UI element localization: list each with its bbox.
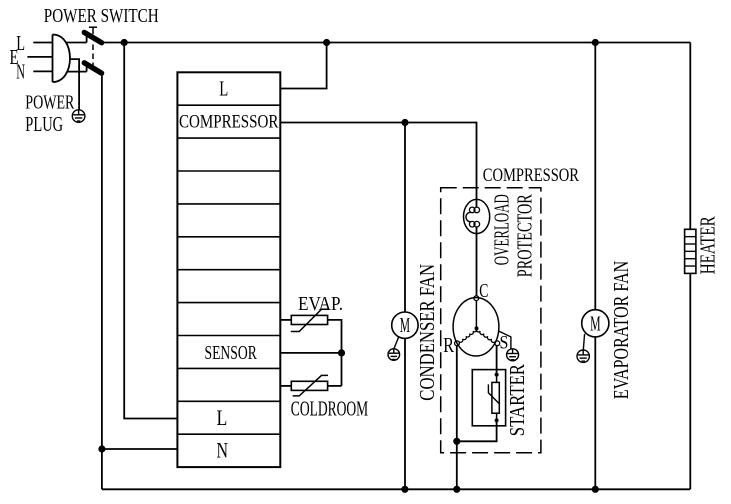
svg-text:POWER SWITCH: POWER SWITCH (44, 5, 159, 27)
node starter terminal top (495, 373, 499, 377)
wire overload to compressor C (476, 227, 478, 296)
switch S1 terminal stub bottom (86, 67, 88, 72)
thermistor EVAP sensor (291, 315, 327, 324)
wire evap sensor to bus (328, 320, 342, 386)
wire N row link (102, 448, 177, 450)
heater element (685, 229, 696, 273)
motor M condenser fan (392, 312, 418, 338)
svg-text:R: R (443, 333, 454, 357)
ground plug earth (72, 110, 85, 123)
svg-text:N: N (16, 59, 25, 83)
motor M evaporator fan (582, 310, 609, 337)
wire row10 to coldroom sensor (280, 385, 291, 387)
wire starter internal bottom (496, 413, 498, 420)
svg-text:C: C (479, 280, 488, 302)
node junction condenser fan tap (401, 119, 408, 126)
svg-text:POWER: POWER (25, 92, 75, 114)
wire evap fan drop (594, 43, 596, 311)
node junction starter return (453, 438, 460, 445)
svg-text:COMPRESSOR: COMPRESSOR (483, 165, 579, 186)
node junction top-mid (to L terminal) (323, 39, 330, 46)
node junction evap fan bottom (592, 486, 599, 493)
node junction condenser fan bottom (401, 486, 408, 493)
svg-text:EVAP.: EVAP. (298, 293, 343, 315)
wire right bus down to heater (689, 43, 691, 230)
switch S1 blade top (84, 32, 101, 42)
switch S1 terminal stub top (86, 37, 88, 43)
wire R to bottom bus (456, 346, 458, 490)
svg-text:N: N (217, 437, 229, 462)
svg-text:COMPRESSOR: COMPRESSOR (179, 111, 279, 132)
wire starter internal top (496, 375, 498, 383)
overload protector OL (464, 199, 490, 233)
switch S1 link (dashed) (92, 45, 94, 66)
switch S1 blade bottom (84, 63, 101, 73)
wire condenser fan to bottom bus (404, 338, 406, 489)
node junction sensor bus (338, 349, 345, 356)
starter box (472, 370, 505, 426)
wire condenser fan drop (404, 123, 406, 313)
ground condenser fan earth (394, 337, 399, 349)
node junction R bottom bus (453, 486, 460, 493)
wire evap fan to bottom bus (594, 337, 596, 490)
wire L row1 to top bus (280, 43, 326, 89)
thermistor PTC starter (492, 382, 499, 413)
wire E input (27, 56, 52, 58)
wire S down to starter (496, 346, 498, 375)
node junction N row (98, 445, 105, 452)
svg-text:OVERLOAD: OVERLOAD (489, 194, 513, 265)
wire COMPRESSOR row2 output (280, 123, 476, 208)
wire top live bus (102, 42, 691, 44)
wire coldroom sensor to bus (328, 385, 342, 387)
wire SENSOR row9 to bus (280, 352, 341, 354)
wire bottom neutral bus (102, 488, 690, 490)
svg-text:SENSOR: SENSOR (205, 342, 258, 364)
power plug P1 (53, 35, 70, 83)
thermostat terminal box (177, 72, 280, 467)
svg-text:M: M (590, 312, 601, 336)
wire row8 to evap sensor (280, 319, 291, 321)
svg-text:COLDROOM: COLDROOM (291, 396, 369, 420)
thermistor COLDROOM sensor (291, 381, 327, 390)
ground evaporator fan earth (583, 334, 584, 350)
wire plug E down (70, 59, 79, 110)
wire left vertical to L row (124, 43, 177, 419)
wire L input (33, 42, 52, 44)
wire starter to R branch (457, 420, 497, 441)
node junction top-left (to L row) (121, 39, 128, 46)
node starter terminal bottom (495, 418, 499, 422)
node junction top-right (evap fan) (592, 39, 599, 46)
compressor enclosure (dashed) (441, 188, 541, 453)
wire plug L to switch (66, 42, 87, 44)
switch S1 T marker (89, 26, 97, 28)
ground compressor case earth (498, 331, 511, 349)
svg-text:M: M (400, 313, 410, 337)
wire heater to bottom bus (689, 273, 691, 489)
svg-text:EVAPORATOR FAN: EVAPORATOR FAN (609, 261, 633, 399)
svg-text:CONDENSER FAN: CONDENSER FAN (415, 264, 439, 401)
svg-text:PLUG: PLUG (25, 112, 63, 136)
wire plug N to switch (67, 71, 87, 73)
motor compressor (453, 296, 500, 356)
svg-text:L: L (217, 405, 228, 430)
svg-text:PROTECTOR: PROTECTOR (513, 194, 537, 277)
wire N input (33, 70, 52, 72)
svg-text:L: L (219, 76, 228, 100)
svg-text:STARTER: STARTER (505, 364, 529, 436)
svg-text:HEATER: HEATER (696, 216, 720, 274)
wire switch to neutral (101, 73, 103, 489)
